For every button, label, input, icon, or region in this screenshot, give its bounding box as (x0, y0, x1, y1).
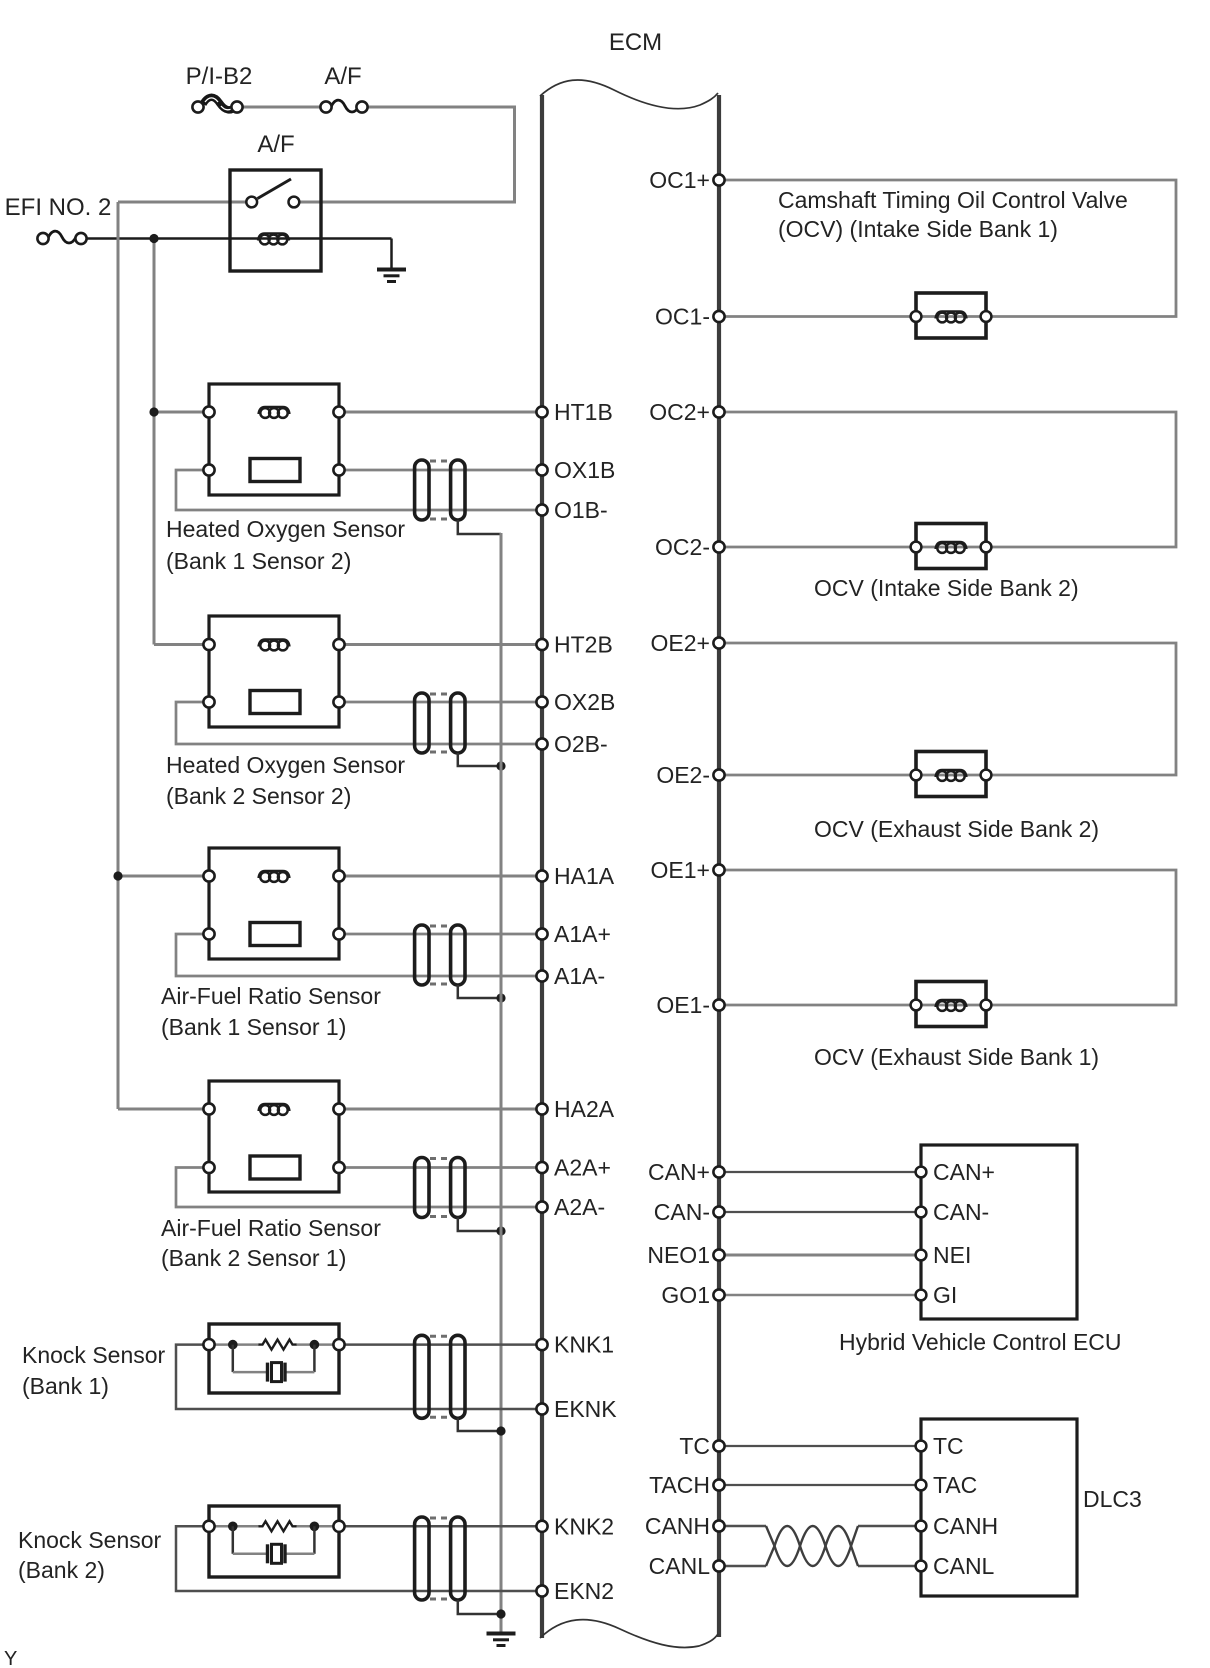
svg-text:(Bank 1 Sensor 2): (Bank 1 Sensor 2) (166, 548, 351, 574)
svg-text:Air-Fuel Ratio Sensor: Air-Fuel Ratio Sensor (161, 1215, 381, 1241)
svg-text:O1B-: O1B- (554, 497, 608, 523)
svg-text:HA1A: HA1A (554, 863, 615, 889)
svg-text:GI: GI (933, 1282, 957, 1308)
svg-text:O2B-: O2B- (554, 731, 608, 757)
svg-text:Knock Sensor: Knock Sensor (22, 1342, 166, 1368)
svg-text:CAN+: CAN+ (648, 1159, 710, 1185)
svg-text:KNK1: KNK1 (554, 1332, 614, 1358)
svg-text:TC: TC (933, 1433, 964, 1459)
svg-text:CAN+: CAN+ (933, 1159, 995, 1185)
svg-text:EKNK: EKNK (554, 1396, 617, 1422)
svg-text:A1A+: A1A+ (554, 921, 611, 947)
svg-text:CANH: CANH (645, 1513, 710, 1539)
svg-text:HT1B: HT1B (554, 399, 613, 425)
svg-text:(Bank 2 Sensor 1): (Bank 2 Sensor 1) (161, 1245, 346, 1271)
svg-text:OE2-: OE2- (656, 762, 710, 788)
svg-text:OX2B: OX2B (554, 689, 615, 715)
svg-text:OCV (Exhaust Side Bank 2): OCV (Exhaust Side Bank 2) (814, 816, 1099, 842)
svg-text:A/F: A/F (257, 131, 294, 158)
svg-text:Heated Oxygen Sensor: Heated Oxygen Sensor (166, 752, 405, 778)
svg-text:Heated Oxygen Sensor: Heated Oxygen Sensor (166, 516, 405, 542)
svg-text:CANL: CANL (649, 1553, 711, 1579)
svg-text:A/F: A/F (324, 63, 361, 90)
svg-text:DLC3: DLC3 (1083, 1486, 1142, 1512)
svg-text:OC2-: OC2- (655, 534, 710, 560)
svg-text:OC1+: OC1+ (649, 167, 710, 193)
svg-text:(Bank 2): (Bank 2) (18, 1557, 105, 1583)
svg-text:TACH: TACH (649, 1472, 710, 1498)
svg-text:OE1+: OE1+ (651, 857, 710, 883)
svg-text:Camshaft Timing Oil Control Va: Camshaft Timing Oil Control Valve (778, 187, 1128, 213)
svg-text:NEO1: NEO1 (647, 1242, 710, 1268)
svg-text:OE1-: OE1- (656, 992, 710, 1018)
svg-text:CANH: CANH (933, 1513, 998, 1539)
svg-text:OE2+: OE2+ (651, 630, 710, 656)
svg-text:TAC: TAC (933, 1472, 977, 1498)
svg-text:TC: TC (679, 1433, 710, 1459)
svg-text:Y: Y (4, 1648, 17, 1668)
svg-text:CANL: CANL (933, 1553, 995, 1579)
svg-text:Hybrid Vehicle Control ECU: Hybrid Vehicle Control ECU (839, 1329, 1122, 1355)
svg-text:OCV (Intake Side Bank 2): OCV (Intake Side Bank 2) (814, 575, 1079, 601)
svg-text:A1A-: A1A- (554, 963, 605, 989)
svg-text:CAN-: CAN- (933, 1199, 989, 1225)
svg-text:HT2B: HT2B (554, 632, 613, 658)
svg-text:A2A+: A2A+ (554, 1155, 611, 1181)
svg-text:KNK2: KNK2 (554, 1513, 614, 1539)
svg-text:OX1B: OX1B (554, 457, 615, 483)
svg-text:EFI NO. 2: EFI NO. 2 (5, 194, 112, 221)
svg-text:Air-Fuel Ratio Sensor: Air-Fuel Ratio Sensor (161, 983, 381, 1009)
svg-text:(Bank 1 Sensor 1): (Bank 1 Sensor 1) (161, 1014, 346, 1040)
svg-text:OCV (Exhaust Side Bank 1): OCV (Exhaust Side Bank 1) (814, 1044, 1099, 1070)
svg-text:GO1: GO1 (661, 1282, 710, 1308)
svg-text:CAN-: CAN- (654, 1199, 710, 1225)
svg-text:Knock Sensor: Knock Sensor (18, 1527, 162, 1553)
svg-text:NEI: NEI (933, 1242, 971, 1268)
svg-text:EKN2: EKN2 (554, 1578, 614, 1604)
svg-text:P/I-B2: P/I-B2 (186, 63, 253, 90)
svg-text:(OCV) (Intake Side Bank 1): (OCV) (Intake Side Bank 1) (778, 216, 1058, 242)
svg-text:ECM: ECM (609, 29, 662, 56)
svg-text:(Bank 2 Sensor 2): (Bank 2 Sensor 2) (166, 783, 351, 809)
svg-text:OC1-: OC1- (655, 304, 710, 330)
svg-text:A2A-: A2A- (554, 1194, 605, 1220)
svg-text:OC2+: OC2+ (649, 399, 710, 425)
svg-text:HA2A: HA2A (554, 1096, 615, 1122)
svg-text:(Bank 1): (Bank 1) (22, 1373, 109, 1399)
